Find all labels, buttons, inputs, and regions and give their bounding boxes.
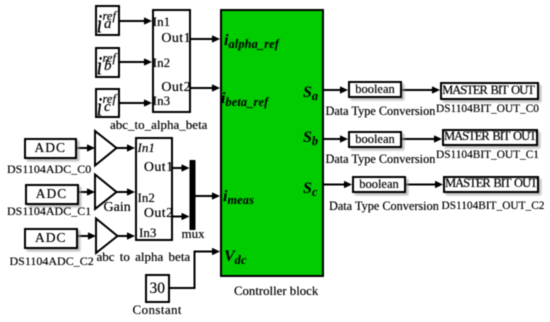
sub2 port In2 (138, 191, 155, 204)
wire boolean3 to master3 (406, 181, 443, 189)
ADC block 2 (25, 184, 79, 205)
label Gain (104, 201, 131, 215)
label Controller block (234, 285, 318, 298)
label DS1104ADC_C0 (7, 163, 91, 175)
label DS1104BIT_OUT_C2 (442, 201, 545, 212)
wire boolean2 to master2 (402, 135, 442, 143)
wire ADC2 to gain2 (78, 188, 95, 196)
port label S_c (303, 181, 318, 198)
wire constant 30 to controller V_dc (170, 248, 220, 288)
port label i_alpha_ref (224, 33, 279, 50)
master bit out block 2 (442, 129, 538, 147)
port label S_a (303, 85, 318, 102)
wire ib_ref to sub1 In2 (120, 58, 152, 66)
label DS1104ADC_C1 (7, 205, 91, 217)
boolean block 1 (348, 81, 402, 98)
ADC block 1 (24, 138, 78, 159)
wire ic_ref to sub1 In3 (120, 99, 152, 107)
label DS1104BIT_OUT_C0 (436, 104, 539, 115)
subsystem abc_to_alpha_beta (top) (152, 9, 191, 113)
boolean block 3 (352, 176, 406, 193)
source block ic_ref (95, 88, 120, 118)
port label i_meas (223, 189, 254, 206)
wire controller S_c to boolean3 (324, 181, 353, 189)
label abc_to_alpha_beta (110, 118, 207, 131)
wire sub2 Out1 to mux (173, 164, 190, 172)
sub1 port In1 (153, 15, 170, 28)
sub2 port In1 italic (138, 141, 155, 154)
wire controller S_a to boolean1 (324, 86, 349, 94)
wire sub1 Out1 to controller i_alpha_ref (191, 35, 220, 43)
sub2 port Out1 (144, 161, 174, 175)
wire sub2 Out2 to mux (173, 213, 190, 221)
label Data Type Conversion row1 (326, 105, 436, 117)
sub1 port Out2 (161, 81, 191, 95)
label abc to alpha beta (97, 250, 191, 263)
source block ia_ref (95, 5, 120, 36)
wire boolean1 to master1 (402, 86, 440, 94)
label mux (182, 227, 205, 240)
port label S_b (303, 130, 318, 147)
wire ia_ref to sub1 In1 (120, 17, 152, 25)
wire ADC1 to gain1 (77, 144, 95, 152)
gain triangle 2 (95, 175, 117, 210)
wire ADC3 to gain3 (77, 232, 96, 240)
sub1 port In3 (153, 94, 170, 107)
wire gain1 to sub2 In1 (117, 144, 136, 152)
port label i_beta_ref (221, 91, 268, 108)
label DS1104ADC_C2 (10, 255, 94, 267)
boolean block 2 (348, 131, 402, 148)
subsystem abc to alpha beta (bottom) (135, 137, 174, 241)
label Data Type Conversion row2 (326, 153, 436, 165)
ADC block 3 (24, 228, 78, 249)
sub1 port Out1 (161, 32, 191, 46)
source block ib_ref (95, 47, 120, 78)
sub2 port Out2 (144, 207, 174, 221)
port label V_dc (224, 249, 247, 266)
sub2 port In3 (139, 226, 156, 239)
master bit out block 1 (440, 82, 539, 100)
wire mux to controller i_meas (196, 192, 221, 200)
master bit out block 3 (443, 176, 539, 193)
label DS1104BIT_OUT_C1 (436, 150, 539, 161)
gain triangle 3 (96, 219, 118, 254)
controller block (green) (220, 9, 324, 277)
constant block 30 (145, 274, 171, 303)
wire gain2 to sub2 In2 (117, 188, 136, 196)
gain triangle 1 (95, 131, 117, 166)
wire sub1 Out2 to controller i_beta_ref (191, 84, 220, 92)
mux block (190, 160, 196, 230)
wire gain3 to sub2 In3 (118, 232, 136, 240)
sub1 port In2 (153, 56, 170, 69)
wire controller S_b to boolean2 (324, 135, 349, 143)
label Constant (133, 303, 182, 316)
label Data Type Conversion row3 (329, 200, 439, 212)
